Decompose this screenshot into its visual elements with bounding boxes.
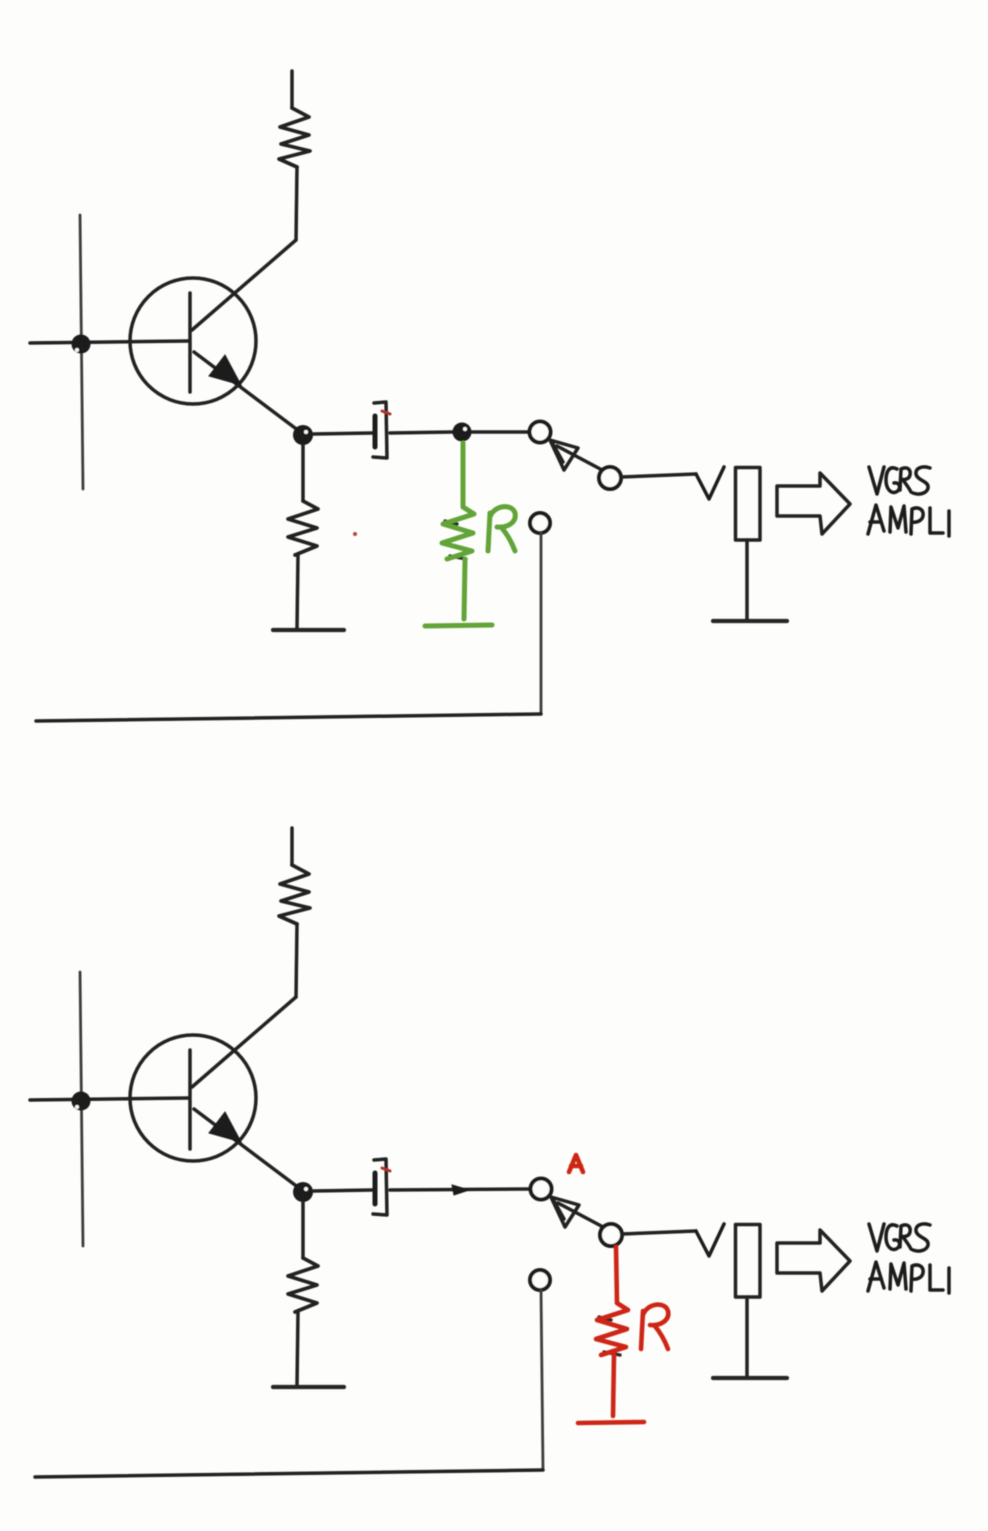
- capacitor C1 right curved plate: [373, 402, 387, 458]
- resistor: emitter resistor (bottom circuit): [288, 1258, 318, 1312]
- wire: emitter node to capacitor: [313, 433, 372, 434]
- wire: Vcc stub above collector resistor (bottom circuit): [290, 828, 294, 865]
- wire: capacitor to junction node: [390, 432, 452, 433]
- wire: collector diagonal into transistor: [192, 240, 296, 330]
- wire: collector vertical below resistor: [296, 167, 297, 240]
- wire: Vcc stub above collector resistor: [290, 71, 294, 108]
- wire: input vertical line crossing base: [80, 972, 83, 1246]
- label VERS (handwritten): [869, 467, 930, 494]
- label node A (red): [569, 1155, 583, 1172]
- wire: pot bottom lead: [745, 1297, 749, 1376]
- node: emitter junction dot: [293, 1182, 313, 1202]
- transistor Q2 body circle: [130, 1035, 256, 1161]
- potentiometer V body (bottom circuit): [736, 1225, 761, 1298]
- wire: bottom return rail: [35, 1470, 543, 1477]
- wire: input vertical line crossing base: [80, 215, 83, 489]
- capacitor C2 right curved plate: [373, 1159, 387, 1215]
- wire: emitter resistor top lead: [301, 1202, 305, 1258]
- wire: red resistor bottom lead: [613, 1355, 614, 1416]
- resistor: emitter resistor (top circuit): [288, 501, 318, 555]
- wire: pot bottom lead: [745, 540, 749, 619]
- arrow: output arrow to amplifier (bottom circuit): [777, 1230, 850, 1291]
- label AMPLI (handwritten): [868, 505, 949, 536]
- transistor Q1 emitter arrow: [209, 355, 241, 385]
- transistor Q1 emitter line: [194, 352, 303, 434]
- ground: green ground bar: [425, 625, 492, 626]
- label AMPLI (handwritten, bottom circuit): [868, 1262, 949, 1293]
- node: base input junction dot: [72, 1092, 91, 1111]
- wire: emitter node to capacitor: [313, 1190, 372, 1191]
- wire: switch to volume pot with V label: [622, 1231, 696, 1234]
- label R (green): [488, 507, 515, 551]
- wire: red resistor top lead from node A: [616, 1247, 617, 1303]
- node: emitter junction dot: [293, 425, 313, 445]
- wire: switch to volume pot with V label: [621, 474, 696, 477]
- node: base input junction dot: [72, 335, 91, 354]
- transistor Q2 base bar: [188, 1050, 192, 1149]
- capacitor C2 left plate: [373, 1173, 378, 1204]
- transistor Q1 body circle: [130, 278, 256, 404]
- wire: emitter resistor top lead: [301, 445, 305, 501]
- capacitor C1 left plate: [373, 416, 378, 447]
- wire: collector diagonal into transistor: [192, 997, 296, 1087]
- transistor Q2 emitter line: [194, 1109, 303, 1191]
- wire: collector vertical below resistor: [296, 924, 297, 997]
- ground: red ground bar: [578, 1422, 644, 1423]
- capacitor C1 red polarity tick: [382, 411, 390, 414]
- ground: emitter ground bar: [273, 628, 344, 632]
- resistor R (red): [596, 1303, 628, 1355]
- transistor Q2 emitter arrow: [209, 1112, 241, 1142]
- resistor R (green): [442, 507, 474, 559]
- resistor: collector load (bottom circuit): [279, 865, 310, 924]
- stray red speck: [353, 532, 357, 536]
- switch contact 3 (lower throw to ground rail): [530, 1270, 550, 1290]
- switch contact 2 (common to output): [599, 467, 621, 489]
- wire: capacitor to switch contact: [390, 1189, 529, 1190]
- wire: emitter resistor bottom lead: [297, 1312, 298, 1385]
- label V (volume): [696, 467, 724, 499]
- transistor Q1 base bar: [188, 293, 192, 392]
- label VERS (handwritten, bottom circuit): [869, 1224, 930, 1251]
- switch contact 3 (lower throw to ground rail): [530, 513, 550, 533]
- wire: green resistor top lead: [461, 443, 466, 507]
- ground: pot ground bar: [713, 619, 787, 623]
- switch contact 2 (common to output, node A): [600, 1224, 622, 1246]
- arrow: output arrow to amplifier: [777, 473, 850, 534]
- label R (red): [641, 1305, 668, 1349]
- wire: base lead: [30, 341, 188, 343]
- ground: emitter ground bar: [273, 1385, 344, 1389]
- wire: green resistor bottom lead: [464, 559, 465, 619]
- label V (volume): [696, 1224, 724, 1256]
- pencil marks under red resistor: [599, 1317, 620, 1355]
- wire: junction to switch contact: [472, 430, 529, 434]
- capacitor C2 red polarity tick: [382, 1168, 390, 1171]
- switch contact 1 (input pole, top circuit): [530, 422, 551, 443]
- switch contact 1 (input pole, bottom circuit): [531, 1179, 552, 1200]
- ground: pot ground bar: [713, 1376, 787, 1380]
- node: junction of green resistor R: [453, 423, 472, 442]
- switch wiper arm with arrowhead: [557, 446, 604, 471]
- resistor: collector load (top circuit): [279, 108, 310, 167]
- wire: emitter resistor bottom lead: [297, 555, 298, 628]
- switch wiper arm with arrowhead: [558, 1203, 605, 1228]
- wire: base lead: [30, 1098, 188, 1100]
- potentiometer V body: [736, 468, 761, 541]
- wire: bottom return rail: [36, 714, 541, 721]
- wire: contact 3 down to bottom rail: [541, 1290, 543, 1470]
- arrow: small signal-direction arrowhead on wire: [452, 1185, 469, 1195]
- wire: contact 3 down to bottom rail: [540, 533, 543, 714]
- pencil marks under green resistor: [445, 521, 466, 559]
